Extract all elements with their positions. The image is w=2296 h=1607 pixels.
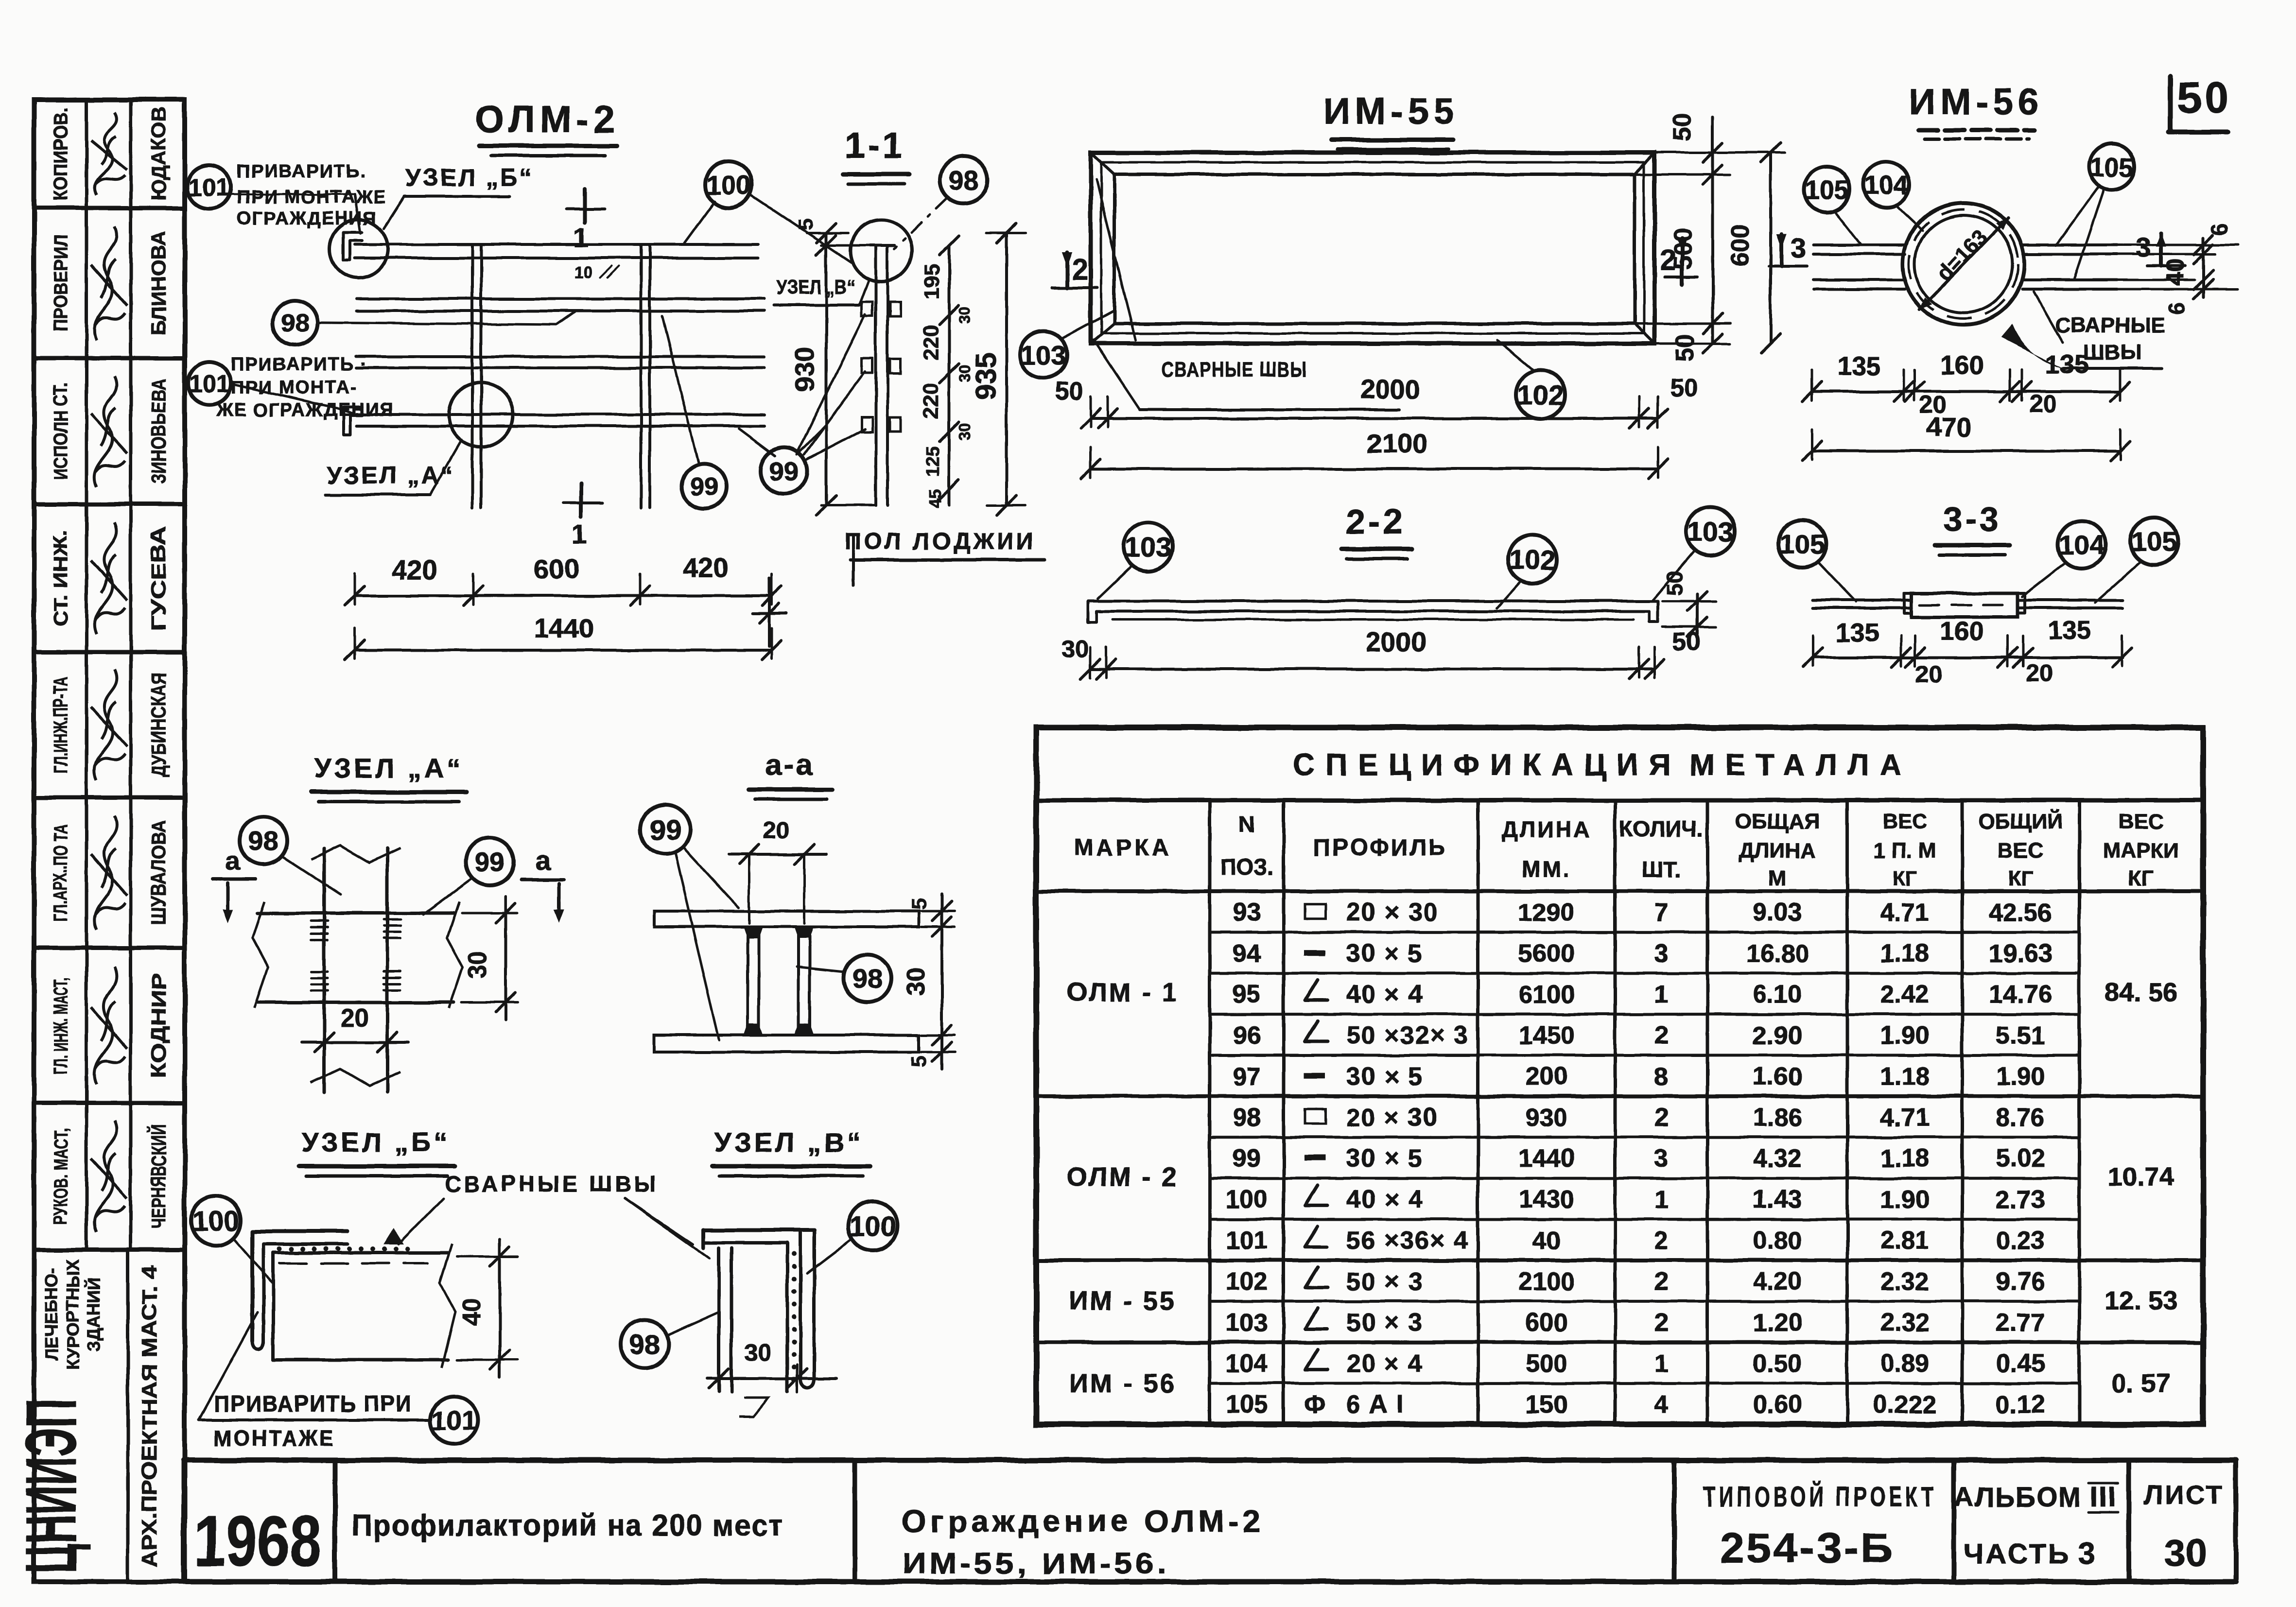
svg-text:20: 20 [1915,661,1942,688]
svg-text:КУРОРТНЫХ: КУРОРТНЫХ [63,1259,83,1370]
svg-text:102: 102 [1226,1267,1268,1296]
svg-text:ТИПОВОЙ ПРОЕКТ: ТИПОВОЙ ПРОЕКТ [1704,1481,1937,1513]
svg-text:103: 103 [1125,532,1171,563]
svg-text:2: 2 [1072,253,1088,286]
svg-text:4: 4 [1654,1391,1669,1419]
svg-text:4.71: 4.71 [1880,899,1929,927]
svg-text:470: 470 [1926,412,1971,442]
svg-text:КГ: КГ [1892,866,1917,890]
svg-text:УЗЕЛ „Б“: УЗЕЛ „Б“ [301,1127,450,1158]
svg-text:ПРИВАРИТЬ ·: ПРИВАРИТЬ · [231,354,367,375]
svg-text:0.89: 0.89 [1880,1349,1929,1378]
svg-text:Ф: Ф [1304,1391,1325,1419]
svg-text:10.74: 10.74 [2108,1162,2174,1192]
svg-text:1.86: 1.86 [1753,1104,1802,1132]
svg-text:а: а [225,845,240,876]
svg-text:20 × 4: 20 × 4 [1346,1349,1423,1378]
svg-text:101: 101 [189,370,229,397]
svg-text:2100: 2100 [1518,1267,1575,1296]
svg-text:СВАРНЫЕ ШВЫ: СВАРНЫЕ ШВЫ [1162,358,1307,381]
svg-text:2.32: 2.32 [1880,1267,1929,1296]
svg-text:20: 20 [341,1004,369,1032]
svg-text:ОБЩИЙ: ОБЩИЙ [1978,809,2063,833]
svg-text:1440: 1440 [534,613,594,643]
svg-text:30: 30 [956,306,974,324]
svg-text:50 × 3: 50 × 3 [1346,1267,1423,1296]
svg-text:ШТ.: ШТ. [1641,857,1681,882]
svg-text:5.51: 5.51 [1996,1021,2045,1050]
svg-text:ЗДАНИЙ: ЗДАНИЙ [83,1278,104,1351]
svg-text:ИСПОЛН СТ.: ИСПОЛН СТ. [50,383,71,480]
svg-text:ДУБИНСКАЯ: ДУБИНСКАЯ [147,673,170,777]
svg-text:0.23: 0.23 [1996,1227,2045,1255]
svg-text:600: 600 [534,553,579,584]
svg-text:УЗЕЛ „В“: УЗЕЛ „В“ [714,1127,864,1158]
svg-text:ПРОВЕРИЛ: ПРОВЕРИЛ [50,235,71,332]
svg-text:2.42: 2.42 [1880,981,1929,1009]
svg-text:1.18: 1.18 [1880,1062,1929,1090]
svg-text:135: 135 [1837,352,1881,381]
svg-text:220: 220 [919,325,943,360]
svg-text:5: 5 [907,1056,931,1068]
svg-text:50: 50 [1671,334,1699,362]
svg-text:50 × 3: 50 × 3 [1346,1309,1423,1337]
svg-text:ШУВАЛОВА: ШУВАЛОВА [147,821,170,925]
svg-text:220: 220 [919,383,943,418]
svg-text:ЦНИИЭП: ЦНИИЭП [11,1399,91,1573]
svg-text:ЛЕЧЕБНО-: ЛЕЧЕБНО- [41,1268,61,1361]
svg-text:97: 97 [1233,1062,1261,1090]
svg-text:3: 3 [2136,232,2151,262]
svg-text:2100: 2100 [1367,428,1428,459]
svg-text:ВЕС: ВЕС [1882,810,1928,833]
svg-text:4.71: 4.71 [1880,1104,1929,1132]
svg-text:98: 98 [852,963,883,994]
svg-text:ЛИСТ: ЛИСТ [2144,1480,2225,1510]
svg-text:ИМ-55: ИМ-55 [1323,91,1459,132]
svg-text:УЗЕЛ „Б“: УЗЕЛ „Б“ [406,164,534,191]
svg-text:50: 50 [1668,113,1696,141]
svg-text:ЗИНОВЬЕВА: ЗИНОВЬЕВА [147,379,170,484]
svg-text:ЮДАКОВ: ЮДАКОВ [147,107,170,201]
svg-text:0. 57: 0. 57 [2112,1369,2170,1398]
svg-text:40 × 4: 40 × 4 [1346,981,1423,1009]
svg-text:20 × 30: 20 × 30 [1346,899,1438,927]
svg-text:50: 50 [1055,377,1083,405]
svg-text:1: 1 [1654,1186,1669,1214]
svg-text:4.32: 4.32 [1753,1144,1802,1173]
svg-text:1.18: 1.18 [1880,1144,1929,1173]
svg-text:2: 2 [1654,1021,1669,1050]
svg-text:СВАРНЫЕ ШВЫ: СВАРНЫЕ ШВЫ [445,1171,659,1196]
svg-text:135: 135 [2045,350,2089,379]
svg-text:4.20: 4.20 [1753,1267,1802,1296]
svg-text:ДЛИНА: ДЛИНА [1739,839,1815,863]
svg-text:1.43: 1.43 [1753,1186,1802,1214]
svg-text:0.80: 0.80 [1753,1227,1802,1255]
svg-text:5600: 5600 [1518,939,1575,968]
svg-text:1.60: 1.60 [1753,1062,1802,1090]
svg-text:200: 200 [1526,1062,1568,1090]
svg-text:56 ×36× 4: 56 ×36× 4 [1346,1227,1469,1255]
svg-text:20: 20 [763,816,790,844]
svg-text:2000: 2000 [1360,374,1421,404]
svg-text:14.76: 14.76 [1989,981,2052,1009]
svg-text:160: 160 [1940,351,1984,380]
svg-text:1 П. М: 1 П. М [1873,839,1936,863]
svg-text:935: 935 [970,353,1002,400]
svg-text:6: 6 [2207,223,2232,236]
svg-text:420: 420 [392,554,437,585]
svg-text:УЗЕЛ „А“: УЗЕЛ „А“ [314,753,464,783]
svg-text:135: 135 [1836,618,1879,647]
svg-text:50: 50 [1662,570,1687,595]
svg-text:ГУСЕВА: ГУСЕВА [147,526,170,631]
svg-text:СПЕЦИФИКАЦИЯ: СПЕЦИФИКАЦИЯ [1293,748,1681,782]
svg-text:100: 100 [850,1211,897,1243]
svg-text:2.90: 2.90 [1753,1021,1802,1050]
svg-text:100: 100 [706,170,751,200]
svg-text:2000: 2000 [1366,626,1426,657]
svg-text:2.32: 2.32 [1880,1309,1929,1337]
svg-text:8.76: 8.76 [1996,1104,2045,1132]
svg-text:96: 96 [1233,1021,1261,1050]
svg-text:ГЛ.АРХ..ПО ТА: ГЛ.АРХ..ПО ТА [50,824,71,921]
svg-text:12. 53: 12. 53 [2105,1286,2177,1315]
svg-text:420: 420 [683,553,728,583]
svg-text:98: 98 [949,165,979,195]
svg-text:99: 99 [769,456,799,486]
svg-text:1430: 1430 [1518,1186,1575,1214]
svg-text:30: 30 [464,950,492,979]
svg-text:30: 30 [2165,1531,2207,1574]
svg-text:АЛЬБОМ: АЛЬБОМ [1954,1482,2082,1512]
svg-text:93: 93 [1233,899,1261,927]
svg-text:СВАРНЫЕ: СВАРНЫЕ [2055,313,2166,337]
svg-text:МАРКА: МАРКА [1074,835,1172,861]
svg-text:6100: 6100 [1518,981,1575,1009]
svg-text:ПОЛ ЛОДЖИИ: ПОЛ ЛОДЖИИ [845,529,1037,554]
svg-text:КОЛИЧ.: КОЛИЧ. [1619,816,1703,842]
svg-text:500: 500 [1669,228,1697,270]
svg-text:105: 105 [1805,175,1849,205]
svg-text:101: 101 [431,1405,476,1436]
svg-text:10: 10 [574,263,592,282]
svg-text:ВЕС: ВЕС [2119,810,2164,833]
svg-text:1.90: 1.90 [1996,1062,2045,1090]
svg-text:19.63: 19.63 [1989,939,2052,968]
svg-text:УЗЕЛ „В“: УЗЕЛ „В“ [777,276,855,298]
svg-text:АРХ.ПРОЕКТНАЯ МАСТ. 4: АРХ.ПРОЕКТНАЯ МАСТ. 4 [138,1265,161,1567]
svg-text:105: 105 [1226,1391,1268,1419]
svg-text:6: 6 [2164,302,2190,315]
svg-text:95: 95 [1233,981,1261,1009]
svg-text:150: 150 [1526,1391,1568,1419]
svg-text:ИМ-56: ИМ-56 [1909,81,2044,122]
svg-text:ЧАСТЬ: ЧАСТЬ [1964,1538,2070,1570]
svg-text:5: 5 [794,219,818,230]
svg-text:ВЕС: ВЕС [1998,839,2043,863]
svg-text:РУКОВ. МАСТ,: РУКОВ. МАСТ, [50,1128,71,1225]
svg-text:103: 103 [1226,1309,1268,1337]
svg-text:2.73: 2.73 [1996,1186,2045,1214]
svg-text:600: 600 [1526,1309,1568,1337]
svg-text:1-1: 1-1 [845,125,905,166]
svg-text:1.18: 1.18 [1880,939,1929,968]
svg-text:0.60: 0.60 [1753,1391,1802,1419]
svg-text:40: 40 [458,1298,486,1326]
svg-text:3-3: 3-3 [1943,500,2001,538]
svg-text:0.50: 0.50 [1753,1349,1802,1378]
svg-text:2: 2 [1654,1267,1669,1296]
svg-text:99: 99 [690,473,718,501]
svg-text:ПОЗ.: ПОЗ. [1220,854,1274,880]
svg-text:104: 104 [2059,530,2104,560]
svg-text:МОНТАЖЕ: МОНТАЖЕ [214,1425,335,1451]
svg-text:104: 104 [1864,171,1908,200]
svg-text:1.20: 1.20 [1753,1309,1802,1337]
svg-text:930: 930 [1526,1104,1568,1132]
svg-text:40: 40 [1532,1227,1561,1255]
svg-text:50 ×32× 3: 50 ×32× 3 [1346,1021,1469,1050]
svg-text:2: 2 [1654,1227,1669,1255]
svg-text:30: 30 [956,423,974,440]
svg-text:20 × 30: 20 × 30 [1346,1104,1438,1132]
svg-text:1: 1 [1654,1349,1669,1378]
svg-text:3: 3 [1791,233,1806,263]
svg-text:102: 102 [1517,380,1563,411]
svg-text:5: 5 [907,898,931,910]
svg-text:ОЛМ - 2: ОЛМ - 2 [1067,1162,1179,1192]
svg-text:195: 195 [920,264,944,299]
svg-text:ОБЩАЯ: ОБЩАЯ [1735,810,1820,833]
svg-text:2: 2 [1654,1104,1669,1132]
svg-text:135: 135 [2048,616,2091,645]
svg-text:99: 99 [475,847,505,877]
svg-text:1: 1 [573,222,588,253]
svg-text:50: 50 [2177,74,2231,122]
svg-text:ПРИВАРИТЬ.: ПРИВАРИТЬ. [237,161,366,182]
svg-text:16.80: 16.80 [1746,939,1809,968]
svg-text:105: 105 [2131,526,2176,557]
svg-text:СТ. ИНЖ.: СТ. ИНЖ. [50,530,71,627]
svg-text:0.45: 0.45 [1996,1349,2045,1378]
svg-text:30: 30 [745,1339,772,1366]
svg-text:1: 1 [572,518,587,549]
svg-text:125: 125 [923,446,943,477]
svg-text:0.12: 0.12 [1996,1391,2045,1419]
svg-text:105: 105 [1779,529,1825,559]
svg-text:6.10: 6.10 [1753,981,1802,1009]
svg-text:ГЛ.ИНЖ.ПР-ТА: ГЛ.ИНЖ.ПР-ТА [50,676,71,774]
svg-text:ОЛМ - 1: ОЛМ - 1 [1067,978,1179,1007]
svg-text:30 × 5: 30 × 5 [1346,939,1423,968]
svg-text:КГ: КГ [2008,866,2033,890]
svg-text:БЛИНОВА: БЛИНОВА [147,231,170,335]
svg-text:30: 30 [1061,635,1089,662]
svg-text:7: 7 [1654,899,1669,927]
svg-text:254-3-Б: 254-3-Б [1720,1525,1895,1572]
svg-text:100: 100 [1226,1186,1268,1214]
svg-text:МЕТАЛЛА: МЕТАЛЛА [1689,748,1912,782]
svg-text:ЖЕ ОГРАЖДЕНИЯ: ЖЕ ОГРАЖДЕНИЯ [216,400,394,420]
svg-text:6 А I: 6 А I [1346,1391,1405,1419]
svg-text:2.81: 2.81 [1880,1227,1929,1255]
svg-text:5.02: 5.02 [1996,1144,2045,1173]
svg-text:8: 8 [1654,1062,1669,1090]
svg-text:500: 500 [1526,1349,1568,1378]
svg-text:98: 98 [248,826,278,856]
svg-text:40 × 4: 40 × 4 [1346,1186,1423,1214]
svg-text:ГЛ. ИНЖ. МАСТ,: ГЛ. ИНЖ. МАСТ, [50,977,71,1074]
svg-text:1.90: 1.90 [1880,1186,1929,1214]
svg-text:30 × 5: 30 × 5 [1346,1144,1423,1173]
svg-text:а-а: а-а [765,748,815,782]
svg-text:99: 99 [1233,1144,1261,1173]
svg-text:9.03: 9.03 [1753,899,1802,927]
svg-text:ИМ - 56: ИМ - 56 [1069,1369,1176,1398]
svg-text:101: 101 [188,173,229,201]
svg-text:М: М [1769,866,1787,890]
svg-text:98: 98 [281,310,309,338]
svg-text:160: 160 [1940,617,1983,646]
svg-text:30 × 5: 30 × 5 [1346,1062,1423,1090]
svg-text:45: 45 [925,489,945,508]
svg-text:Ограждение ОЛМ-2: Ограждение ОЛМ-2 [902,1503,1264,1538]
svg-text:9.76: 9.76 [1996,1267,2045,1296]
svg-text:1968: 1968 [194,1501,321,1581]
svg-text:1: 1 [1654,981,1669,1009]
svg-text:ЧЕРНЯВСКИЙ: ЧЕРНЯВСКИЙ [147,1124,170,1229]
svg-text:КГ: КГ [2128,866,2154,890]
svg-text:930: 930 [789,346,820,392]
svg-text:МАРКИ: МАРКИ [2103,839,2179,863]
svg-text:20: 20 [2026,659,2053,687]
svg-text:2-2: 2-2 [1346,502,1405,541]
svg-text:III: III [2090,1481,2117,1513]
svg-text:ПРИ МОНТАЖЕ: ПРИ МОНТАЖЕ [237,187,387,207]
svg-text:ИМ - 55: ИМ - 55 [1069,1286,1176,1315]
svg-text:ШВЫ: ШВЫ [2083,341,2141,364]
svg-text:50: 50 [1670,374,1698,402]
svg-text:1450: 1450 [1518,1021,1575,1050]
svg-text:Профилакторий на 200 мест: Профилакторий на 200 мест [351,1509,784,1542]
svg-text:94: 94 [1233,939,1261,968]
svg-text:103: 103 [1021,340,1066,370]
svg-text:30: 30 [902,968,930,996]
svg-text:ИМ-55, ИМ-56.: ИМ-55, ИМ-56. [902,1547,1169,1580]
svg-text:КОПИРОВ.: КОПИРОВ. [50,107,71,201]
svg-text:101: 101 [1226,1227,1268,1255]
svg-text:99: 99 [650,814,681,846]
svg-text:N: N [1238,812,1254,837]
svg-text:1440: 1440 [1518,1144,1575,1173]
svg-text:100: 100 [192,1206,240,1237]
svg-text:3: 3 [1654,939,1669,968]
svg-text:98: 98 [1233,1104,1261,1132]
svg-text:2.77: 2.77 [1996,1309,2045,1337]
svg-text:40: 40 [2161,259,2189,286]
svg-text:20: 20 [2029,390,2056,417]
svg-text:98: 98 [629,1329,660,1360]
svg-text:102: 102 [1509,545,1555,576]
svg-text:103: 103 [1687,517,1733,548]
svg-text:ДЛИНА: ДЛИНА [1502,816,1592,842]
svg-text:50: 50 [1672,628,1701,656]
svg-text:1.90: 1.90 [1880,1021,1929,1050]
svg-text:1290: 1290 [1518,899,1575,927]
svg-text:а: а [535,845,551,876]
svg-text:600: 600 [1726,225,1755,267]
svg-text:42.56: 42.56 [1989,899,2052,927]
svg-text:0.222: 0.222 [1873,1391,1936,1419]
svg-text:84. 56: 84. 56 [2105,978,2177,1007]
svg-text:105: 105 [2090,153,2134,182]
svg-text:КОДНИР: КОДНИР [147,973,170,1078]
svg-text:ПРОФИЛЬ: ПРОФИЛЬ [1314,835,1447,861]
svg-text:ОЛМ-2: ОЛМ-2 [475,98,620,140]
svg-text:2: 2 [1654,1309,1669,1337]
svg-text:3: 3 [1654,1144,1669,1173]
svg-text:ПРИВАРИТЬ ПРИ: ПРИВАРИТЬ ПРИ [214,1391,412,1417]
svg-text:ММ.: ММ. [1522,857,1571,882]
svg-text:3: 3 [2077,1536,2095,1571]
svg-text:104: 104 [1226,1349,1268,1378]
